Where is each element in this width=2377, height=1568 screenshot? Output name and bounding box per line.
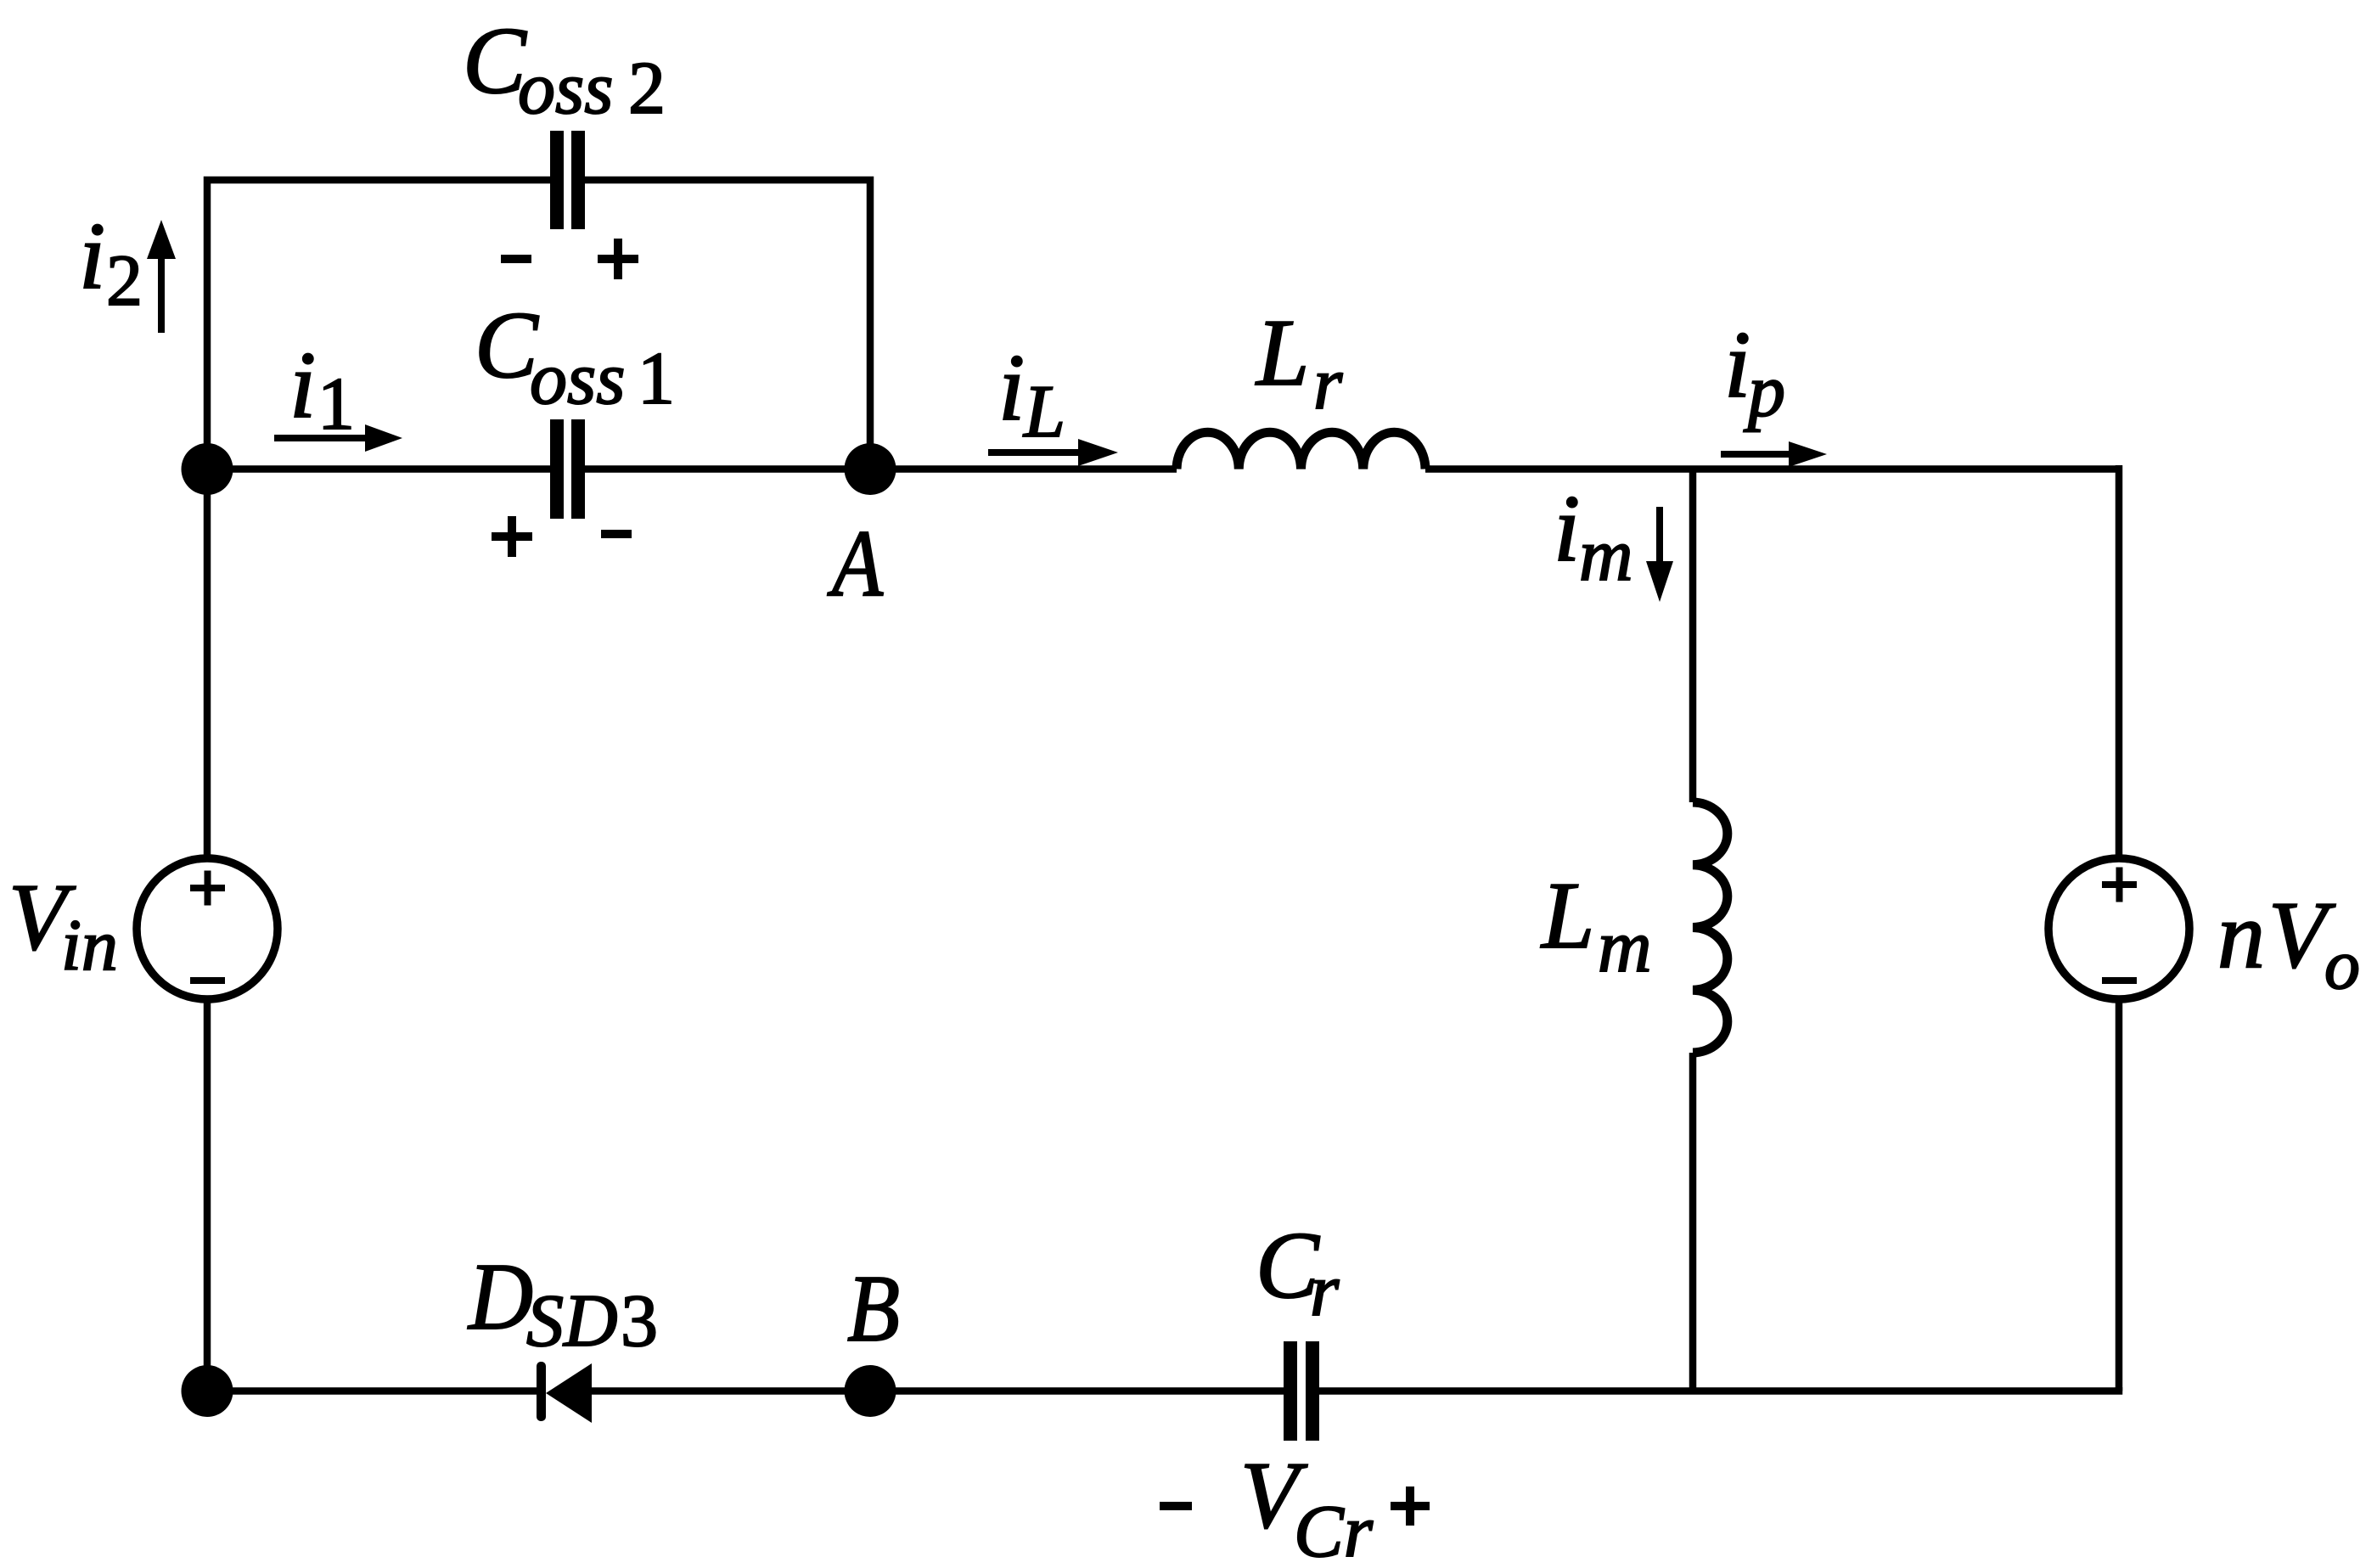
svg-text:m: m (1598, 906, 1652, 988)
current arrow im (1646, 507, 1673, 602)
svg-text:i: i (1554, 476, 1580, 582)
svg-text:A: A (827, 511, 884, 616)
wire main horizontal Lr to right corner (1425, 465, 2119, 473)
wire left rail upper (node to Vin) (204, 469, 211, 860)
svg-text:oss: oss (518, 48, 614, 130)
svg-text:n: n (2217, 883, 2265, 988)
label nVo (2217, 883, 2360, 1004)
wire left rail lower (Vin to bottom corner) (204, 998, 211, 1391)
inductor Lr (1177, 432, 1425, 469)
svg-text:i: i (289, 333, 316, 438)
capacitor Coss2 (550, 131, 585, 229)
label Coss1 (475, 293, 675, 420)
svg-text:D: D (467, 1245, 533, 1350)
wire bottom middle segment (Cr to diode) (592, 1387, 1284, 1395)
svg-text:3: 3 (621, 1280, 658, 1363)
label Cr (1256, 1213, 1340, 1332)
svg-text:B: B (847, 1256, 900, 1362)
svg-text:Cr: Cr (1294, 1491, 1374, 1568)
svg-text:2: 2 (628, 48, 666, 130)
current arrow ip (1721, 441, 1827, 467)
label Vin (8, 865, 118, 986)
svg-text:i: i (1724, 312, 1750, 418)
polarity marks of Coss2 (501, 239, 638, 279)
label i1 (289, 333, 355, 446)
svg-text:L: L (1022, 371, 1065, 453)
label i2 (79, 204, 143, 321)
svg-text:p: p (1743, 351, 1785, 433)
wire Lm branch lower (1689, 1053, 1697, 1391)
wire top loop left vertical and top-left segment (207, 180, 550, 472)
svg-text:SD: SD (526, 1280, 618, 1363)
polarity marks inside nVo (2102, 868, 2137, 985)
svg-text:L: L (1540, 863, 1594, 969)
diode DSD3 (537, 1362, 592, 1423)
wire Lm branch upper (1689, 469, 1697, 803)
svg-text:1: 1 (638, 338, 675, 420)
polarity + of VCr (1391, 1487, 1430, 1526)
svg-text:r: r (1310, 1250, 1340, 1332)
wire bottom right segment (corner to Cr) (1319, 1387, 2119, 1391)
label ip (1724, 312, 1785, 433)
wire main horizontal Coss1 to Lr (585, 465, 1177, 473)
node junction left (Vin positive rail) (182, 443, 233, 495)
svg-text:1: 1 (317, 363, 355, 446)
svg-text:i: i (79, 204, 105, 309)
inductor Lm (1693, 802, 1728, 1053)
wire bottom left segment (diode to left corner) (207, 1387, 541, 1395)
label iL (998, 335, 1065, 453)
polarity - of VCr (1160, 1502, 1192, 1510)
svg-text:oss: oss (530, 338, 626, 420)
svg-text:L: L (1255, 301, 1309, 406)
source Vin circle (137, 858, 278, 999)
label VCr (voltage across Cr) (1240, 1443, 1374, 1568)
current arrow i1 (274, 424, 402, 452)
svg-text:i: i (998, 335, 1025, 441)
svg-text:m: m (1579, 514, 1633, 597)
wire main horizontal left segment (node to Coss1) (207, 465, 550, 473)
wire right rail lower (nVo to bottom corner) (2116, 998, 2123, 1391)
wire right rail upper (corner to nVo) (2116, 465, 2123, 859)
svg-text:2: 2 (106, 239, 143, 321)
capacitor Coss1 (550, 419, 585, 519)
polarity marks inside Vin (190, 871, 225, 985)
label DSD3 (467, 1245, 658, 1363)
current arrow i2 (147, 220, 176, 333)
label Coss2 (463, 8, 666, 130)
node B (845, 1365, 896, 1417)
node bottom-left junction (182, 1365, 233, 1417)
svg-text:r: r (1313, 343, 1343, 425)
node A (845, 443, 896, 495)
svg-text:in: in (61, 904, 118, 986)
polarity marks of Coss1 (492, 516, 632, 557)
capacitor Cr (1284, 1341, 1319, 1441)
wire top loop right segment and right vertical down to node A (585, 180, 870, 472)
current arrow iL (988, 439, 1118, 466)
label im (1554, 476, 1633, 597)
svg-text:o: o (2324, 925, 2360, 1004)
source nVo circle (2048, 858, 2189, 999)
